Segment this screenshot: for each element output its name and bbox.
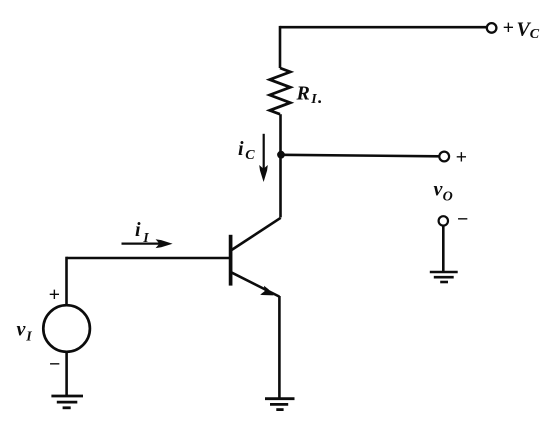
label: vO xyxy=(434,179,453,205)
svg-text:I: I xyxy=(142,231,149,246)
svg-text:+: + xyxy=(49,284,60,306)
svg-text:O: O xyxy=(443,190,453,205)
svg-text:i: i xyxy=(238,138,244,160)
transistor Q1: base bar xyxy=(229,235,233,286)
resistor RL xyxy=(270,68,291,114)
svg-text:C: C xyxy=(245,148,255,163)
wire: node to vO+ terminal xyxy=(281,155,439,157)
svg-text:−: − xyxy=(457,209,469,231)
ground: input ground symbol xyxy=(51,396,83,408)
wire: vertical from rail to resistor top xyxy=(279,26,282,68)
wire: base wire from source to base xyxy=(67,257,231,260)
svg-text:−: − xyxy=(49,354,61,376)
label: vI xyxy=(17,319,33,345)
wire: source top vertical xyxy=(65,257,68,306)
svg-text:+: + xyxy=(503,17,514,39)
wire: vO - terminal down to ground xyxy=(442,226,445,272)
source V1: vI voltage source circle xyxy=(43,305,90,352)
svg-text:I: I xyxy=(25,330,32,345)
label: RL xyxy=(296,83,322,108)
svg-text:+: + xyxy=(456,147,467,169)
wire: source bottom to ground xyxy=(65,352,68,396)
transistor Q1: emitter arrowhead xyxy=(260,286,273,296)
wire: collector vertical below node xyxy=(279,155,282,218)
wire: emitter vertical to ground xyxy=(278,296,281,399)
ground: output ground symbol xyxy=(430,272,458,282)
label: +VC xyxy=(503,17,540,42)
ground: emitter ground symbol xyxy=(265,399,295,410)
terminal: vO - open circle xyxy=(439,216,448,225)
wire: resistor bottom to collector node xyxy=(279,114,282,156)
label: iC xyxy=(238,138,255,163)
arrow: iC current arrow (down) xyxy=(263,134,265,170)
svg-text:v: v xyxy=(17,319,27,341)
arrow: iI current arrow (right) xyxy=(122,243,162,245)
terminal: +VC open circle xyxy=(487,23,497,33)
transistor Q1: collector diagonal xyxy=(231,218,281,251)
wire: top supply rail xyxy=(280,26,487,29)
node: collector output node (junction dot) xyxy=(277,151,285,159)
label: iI xyxy=(135,219,149,246)
svg-text:C: C xyxy=(530,27,540,42)
transistor Q1: emitter diagonal xyxy=(231,272,279,296)
terminal: vO + open circle xyxy=(439,152,449,162)
svg-text:I: I xyxy=(310,92,317,107)
svg-text:R: R xyxy=(296,83,310,105)
svg-text:i: i xyxy=(135,219,141,241)
